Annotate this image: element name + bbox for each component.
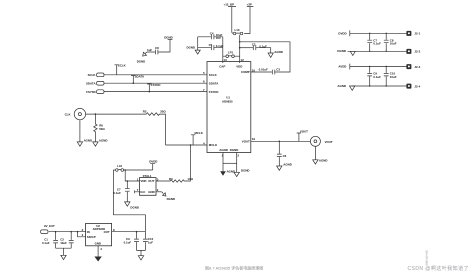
svg-text:OUT: OUT <box>104 230 110 234</box>
svg-text:J2-2: J2-2 <box>414 50 420 54</box>
svg-text:VDD: VDD <box>236 65 242 69</box>
svg-text:VOUT: VOUT <box>242 139 250 143</box>
svg-text:19: 19 <box>252 137 256 141</box>
svg-text:VDD: VDD <box>140 179 146 183</box>
svg-text:DGND: DGND <box>137 59 146 63</box>
connector J2-2 <box>406 49 420 54</box>
net +12_BP flag <box>224 2 237 32</box>
wire AGND pin stub <box>222 153 224 172</box>
wire reg gnd stub <box>97 246 99 257</box>
svg-text:1uF: 1uF <box>148 241 153 245</box>
node dot B <box>239 47 241 49</box>
oscillator XTAL1 <box>137 174 159 195</box>
connector tag 9V_EXT <box>41 224 55 233</box>
connector CLK BNC <box>65 108 86 119</box>
svg-text:DGND: DGND <box>167 197 176 201</box>
connector J2-1 <box>406 31 420 36</box>
svg-text:10uF: 10uF <box>390 75 397 79</box>
net DVDD flag (osc) <box>149 160 157 170</box>
net AVDD flag (header2) <box>338 64 406 70</box>
wire cap rail right <box>222 37 224 63</box>
link LP1 <box>223 51 240 58</box>
svg-text:DGND: DGND <box>241 168 250 172</box>
svg-text:+12_BP: +12_BP <box>224 2 235 6</box>
wire input cap bar <box>56 248 72 255</box>
ground DGND (osc cap) <box>125 202 139 210</box>
svg-text:FSYNC: FSYNC <box>151 83 162 87</box>
connector J2-4 <box>406 84 420 89</box>
svg-text:OUT: OUT <box>148 179 154 183</box>
node dot R6 tap <box>95 113 97 115</box>
wire VOUT bnc shield <box>314 146 316 160</box>
ground DGND (header1) <box>337 49 355 55</box>
wire DGND pin stub <box>236 153 238 173</box>
svg-text:C5: C5 <box>209 43 213 47</box>
svg-text:R2: R2 <box>143 109 147 113</box>
svg-text:0.1uF: 0.1uF <box>373 75 381 79</box>
svg-text:12: 12 <box>241 58 245 62</box>
capacitor C2 10uF <box>60 232 73 249</box>
svg-text:C3: C3 <box>276 68 280 72</box>
svg-text:AGND: AGND <box>84 138 93 142</box>
node dot osc tap <box>124 169 126 171</box>
svg-text:FSYNC: FSYNC <box>209 90 220 94</box>
svg-text:DGND: DGND <box>337 49 346 53</box>
wire osc gnd stub <box>156 191 162 193</box>
svg-text:DVDD: DVDD <box>149 160 157 164</box>
resistor R2 <box>143 109 167 145</box>
svg-text:AGND: AGND <box>274 50 283 54</box>
svg-text:LP1: LP1 <box>228 51 234 55</box>
connector J2-3 <box>406 64 420 69</box>
svg-text:16: 16 <box>252 68 256 72</box>
testpoint FSYNC <box>147 83 161 93</box>
testpoint SCLK <box>115 63 127 74</box>
svg-text:MCLK: MCLK <box>209 143 218 147</box>
ground (input caps) <box>61 255 66 259</box>
node dot C1 <box>55 231 57 233</box>
wire osc vdd <box>125 170 139 181</box>
svg-text:50Ω: 50Ω <box>99 127 105 131</box>
svg-text:FSYNC: FSYNC <box>86 90 97 94</box>
wire VOUT <box>251 140 311 142</box>
wire to COMP cap <box>240 42 290 72</box>
svg-text:SDATA: SDATA <box>135 74 145 78</box>
svg-text:CLK: CLK <box>65 112 72 116</box>
net +3P flag <box>244 2 253 33</box>
svg-text:9V_EXT: 9V_EXT <box>44 224 55 228</box>
svg-text:10uF: 10uF <box>60 241 67 245</box>
capacitor C1 0.1uF <box>42 232 58 249</box>
connector tag SCLK <box>88 73 104 77</box>
connector VOUT BNC <box>310 136 332 146</box>
node dot osc cap <box>127 180 129 182</box>
svg-text:SCLK: SCLK <box>118 63 127 67</box>
svg-text:VOUT: VOUT <box>325 140 333 144</box>
svg-text:图8.7 AD9835 评估板电路原理图: 图8.7 AD9835 评估板电路原理图 <box>205 265 263 271</box>
wire FSYNC <box>104 91 207 93</box>
svg-text:COMP: COMP <box>241 70 250 74</box>
wire SD tie <box>78 232 86 237</box>
svg-text:SCLK: SCLK <box>209 73 218 77</box>
capacitor C4 10uF <box>198 31 223 40</box>
svg-text:SDATA: SDATA <box>86 81 96 85</box>
ground DGND (bridge) <box>137 52 147 63</box>
testpoint VOUT <box>297 130 308 142</box>
svg-text:L10: L10 <box>117 164 122 168</box>
ground (output caps) <box>138 256 143 260</box>
capacitor C6 (VOUT) <box>277 141 287 166</box>
node dot C9 <box>136 231 138 233</box>
wire osc nc stub <box>135 190 140 193</box>
ground AGND (R6) <box>93 138 108 146</box>
svg-text:AGND: AGND <box>337 84 346 88</box>
svg-text:0.1uF: 0.1uF <box>373 42 381 46</box>
svg-text:C4: C4 <box>210 31 214 35</box>
wire SCLK <box>104 74 207 76</box>
svg-text:CAP: CAP <box>219 65 225 69</box>
capacitor C10 10uF <box>143 232 154 251</box>
svg-text:13: 13 <box>224 58 228 62</box>
svg-text:SD/CP: SD/CP <box>87 235 96 239</box>
resistor R3 <box>156 145 194 182</box>
wire ground tie bar <box>223 162 237 164</box>
capacitor C9 0.1uF <box>124 232 139 251</box>
ground AGND (VOUT bnc) <box>313 158 328 164</box>
ground DGND (cap rail) <box>187 46 201 55</box>
svg-text:AGND: AGND <box>227 170 236 174</box>
wire CLK <box>86 113 147 115</box>
capacitor C10h 10uF <box>384 66 397 87</box>
svg-text:SDATA: SDATA <box>209 81 219 85</box>
node dot A <box>239 41 241 43</box>
capacitor C2 0.1uF <box>252 42 271 53</box>
node dot VOUT cap <box>279 141 281 143</box>
connector tag FSYNC <box>86 90 104 94</box>
link LK1 (osc supply) <box>113 164 152 171</box>
capacitor C9h 0.1uF <box>367 66 381 87</box>
node dot C2 <box>70 231 72 233</box>
IC U1 AD9835 <box>203 58 255 157</box>
svg-text:+3P: +3P <box>247 2 252 6</box>
connector tag SDATA <box>86 81 104 85</box>
capacitor C5 0.1uF <box>198 43 224 50</box>
svg-text:0.01uF: 0.01uF <box>259 68 268 72</box>
capacitor C7h 0.1uF <box>367 33 381 52</box>
svg-text:DGND: DGND <box>230 148 239 152</box>
svg-text:1uF: 1uF <box>147 48 152 52</box>
wire BNC shield down <box>79 120 81 142</box>
net DVDD flag (header1) <box>338 30 406 36</box>
wire VDD decouple <box>240 47 253 49</box>
wire header2 gnd rail <box>352 85 406 87</box>
ground AGND (IC) <box>220 170 235 176</box>
svg-text:16V: 16V <box>216 36 221 40</box>
wire output cap bar <box>137 250 146 255</box>
testpoint MCLK <box>191 131 204 145</box>
svg-text:AGND: AGND <box>99 138 108 142</box>
svg-text:20Ω: 20Ω <box>160 109 166 113</box>
svg-text:AD9835: AD9835 <box>222 100 233 104</box>
svg-text:C6: C6 <box>283 154 287 158</box>
ground AGND (CLK bnc) <box>77 138 92 146</box>
node dot MCLK junction <box>190 144 192 146</box>
svg-text:MCLK: MCLK <box>195 131 204 135</box>
wire supply riser <box>113 170 145 232</box>
regulator U2 ADP3300 <box>82 223 115 251</box>
testpoint SDATA <box>131 74 145 84</box>
svg-text:DGND: DGND <box>130 205 139 209</box>
svg-text:0.1uF: 0.1uF <box>113 191 121 195</box>
wire cap rail left <box>197 37 199 50</box>
resistor R6 50 <box>94 114 106 142</box>
svg-text:CSDN @啊这叶我知道了: CSDN @啊这叶我知道了 <box>408 265 469 272</box>
wire MCLK <box>166 144 208 146</box>
svg-text:SCLK: SCLK <box>88 73 97 77</box>
svg-text:DGND: DGND <box>164 35 173 39</box>
svg-text:C8: C8 <box>155 46 159 50</box>
wire reg output <box>112 231 146 233</box>
svg-text:J2-1: J2-1 <box>414 32 420 36</box>
wire VDD node vertical <box>239 35 241 63</box>
svg-text:AGND: AGND <box>219 148 228 152</box>
node dot SD <box>77 231 79 233</box>
svg-text:10uF: 10uF <box>390 42 397 46</box>
svg-text:0.1uF: 0.1uF <box>124 241 132 245</box>
capacitor C8h 10uF <box>384 33 397 52</box>
svg-text:J2-4: J2-4 <box>414 84 420 88</box>
capacitor C8 1uF (AGND-DGND) <box>147 40 170 55</box>
ground (regulator) <box>94 257 101 262</box>
ground AGND (VDD decouple) <box>268 50 283 57</box>
svg-text:0.1uF: 0.1uF <box>42 241 50 245</box>
svg-text:C2: C2 <box>252 42 256 46</box>
svg-text:AGND: AGND <box>283 163 292 167</box>
net DGND flag (bridge) <box>164 35 173 39</box>
ground DGND (osc) <box>162 192 176 201</box>
wire reg input <box>49 231 86 233</box>
wire SDATA <box>104 82 207 84</box>
capacitor C3 0.01uF (COMP) <box>251 68 280 75</box>
svg-text:L10: L10 <box>235 28 240 32</box>
svg-text:DGND: DGND <box>187 46 196 50</box>
svg-text:J2-3: J2-3 <box>414 65 420 69</box>
link LK2 <box>232 28 243 35</box>
capacitor C7 0.1uF (osc) <box>113 181 129 202</box>
ground AGND (VOUT cap) <box>277 163 292 171</box>
svg-text:AGND: AGND <box>319 158 328 162</box>
wire header1 gnd rail <box>348 50 407 52</box>
svg-text:GND: GND <box>148 190 154 194</box>
ground DGND (IC) <box>234 168 250 176</box>
svg-text:DVDD: DVDD <box>338 31 346 35</box>
svg-text:VOUT: VOUT <box>300 130 308 134</box>
svg-text:GND: GND <box>95 242 101 246</box>
ground AGND (header2) <box>337 84 355 90</box>
svg-text:AVDD: AVDD <box>338 65 346 69</box>
svg-text:IN: IN <box>87 230 90 234</box>
